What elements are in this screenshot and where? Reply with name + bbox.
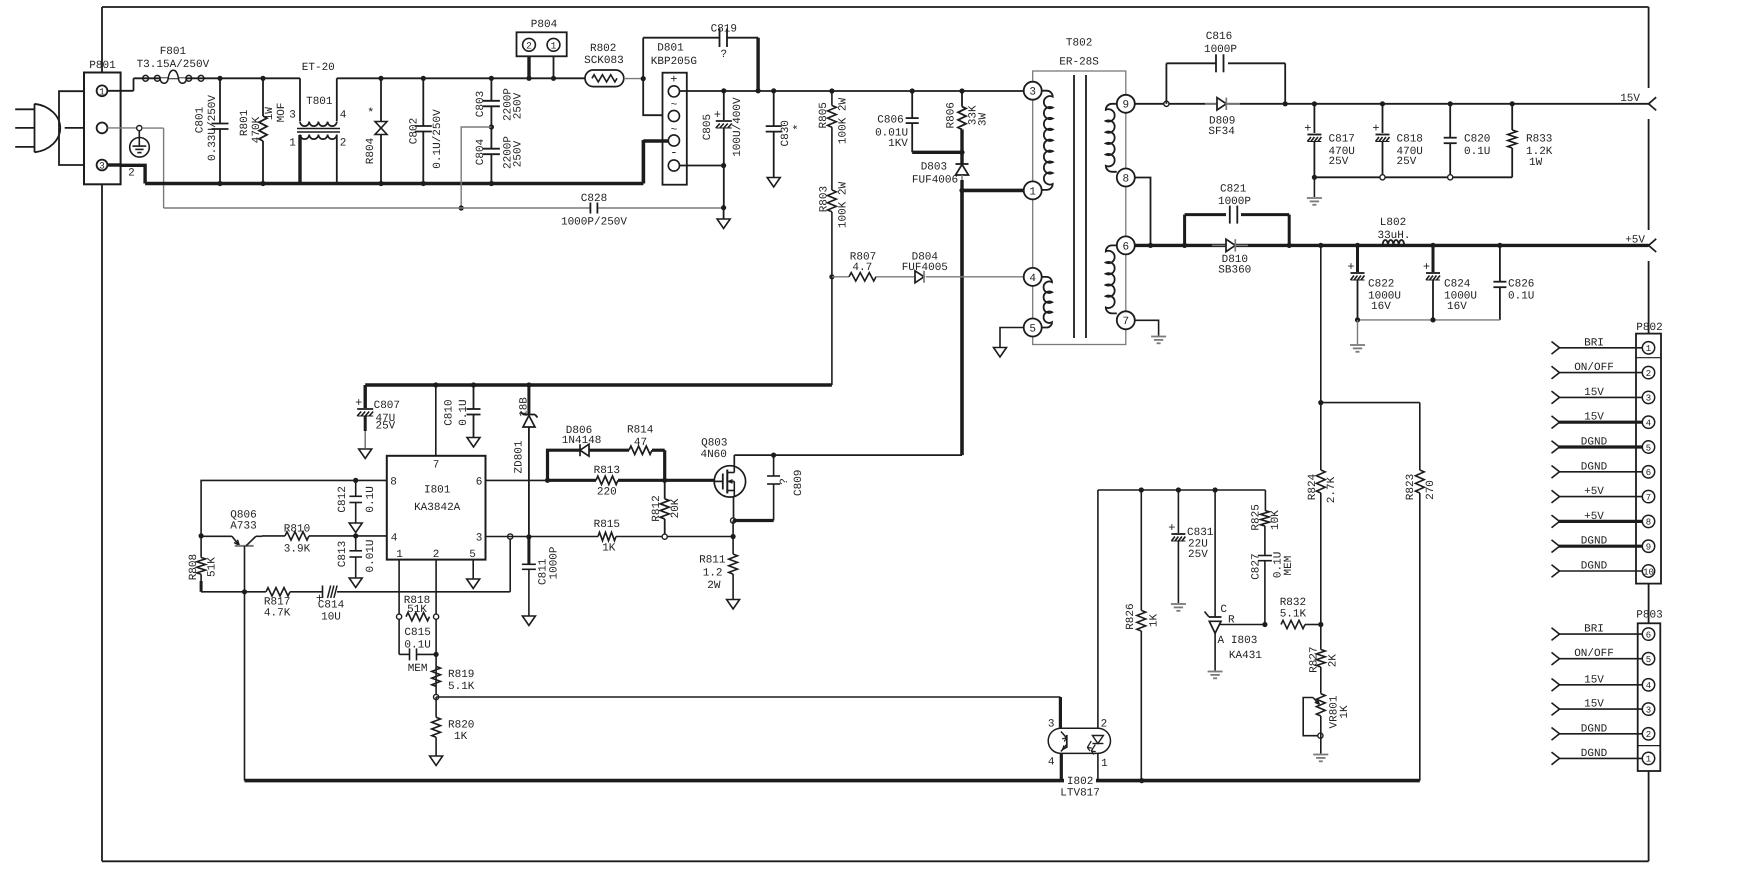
- resistor R812: [664, 480, 666, 499]
- P803 pin 4 wire 15V: [1559, 684, 1642, 686]
- svg-text:2: 2: [1646, 369, 1651, 379]
- T801 winding 1-2: [300, 135, 337, 140]
- svg-text:1N4148: 1N4148: [562, 435, 602, 447]
- wire to bridge ~1: [643, 79, 668, 116]
- capacitor C826: [1497, 243, 1502, 248]
- T802 pin5 wire to ground: [1000, 328, 1024, 348]
- I802 pin4 leg (thick): [1060, 753, 1063, 780]
- AC plug: [35, 104, 61, 153]
- P802 pin 10 wire DGND: [1559, 570, 1642, 572]
- svg-text:ON/OFF: ON/OFF: [1574, 362, 1614, 374]
- T802 pin 7: [1117, 311, 1135, 329]
- R824-R823 tie row: [1321, 402, 1420, 404]
- svg-text:C831: C831: [1187, 527, 1214, 539]
- capacitor C811: [527, 537, 530, 564]
- I802 phototransistor: [1066, 735, 1068, 748]
- resistor R827: [1320, 625, 1322, 650]
- svg-text:ZD801: ZD801: [513, 440, 525, 473]
- svg-text:6: 6: [476, 476, 483, 488]
- VCC rail (thick): [365, 383, 832, 386]
- svg-text:C805: C805: [702, 114, 714, 140]
- svg-text:BRI: BRI: [1584, 624, 1604, 636]
- capacitor C804: [489, 124, 494, 129]
- secondary reference rail: [1098, 489, 1266, 491]
- svg-text:R813: R813: [594, 465, 620, 477]
- svg-text:C814: C814: [318, 600, 345, 612]
- svg-text:MEM: MEM: [408, 663, 428, 675]
- capacitor C814: [322, 586, 324, 599]
- I802 pin2 riser: [1097, 490, 1099, 728]
- svg-text:16V: 16V: [1371, 301, 1391, 313]
- svg-text:C819: C819: [711, 24, 737, 36]
- svg-text:1000P: 1000P: [1218, 196, 1251, 208]
- PWM IC I801 KA3842A: [387, 456, 486, 560]
- svg-text:4: 4: [340, 110, 347, 122]
- gate drive top row D806 R814: [548, 450, 581, 480]
- svg-text:250V: 250V: [512, 92, 524, 119]
- svg-text:1K: 1K: [602, 543, 616, 555]
- capacitor C810: [471, 382, 476, 387]
- capacitor C824: [1430, 243, 1435, 248]
- wire bridge minus: [680, 165, 724, 167]
- rail P804 to R802: [529, 77, 585, 79]
- snubber capacitor C816 loop: [1165, 63, 1167, 104]
- capacitor C802: [422, 78, 424, 126]
- resistor R826: [1140, 490, 1142, 610]
- svg-text:R805: R805: [818, 102, 830, 128]
- svg-text:DGND: DGND: [1581, 437, 1608, 449]
- svg-text:0.1U: 0.1U: [458, 399, 470, 425]
- resistor R825: [1264, 490, 1266, 511]
- svg-text:P803: P803: [1636, 610, 1662, 622]
- svg-text:8: 8: [1646, 518, 1651, 528]
- svg-text:R825: R825: [1250, 504, 1262, 530]
- ground under VR801: [1313, 754, 1328, 756]
- svg-text:MOF: MOF: [276, 103, 288, 123]
- svg-text:C806: C806: [877, 115, 903, 127]
- capacitor C817: [1312, 101, 1317, 106]
- feedback row to optocoupler: [436, 696, 1060, 698]
- fuse F801: [134, 77, 301, 79]
- riser to pin3 row: [509, 537, 511, 592]
- svg-text:SF34: SF34: [1208, 126, 1235, 138]
- svg-text:DGND: DGND: [1581, 461, 1608, 473]
- T802 core: [1073, 75, 1075, 338]
- svg-text:SCK083: SCK083: [584, 55, 624, 67]
- T801 winding 3-4: [299, 78, 301, 121]
- svg-text:KBP205G: KBP205G: [651, 56, 697, 68]
- source junction: [733, 497, 735, 521]
- P802 pin 5 wire DGND: [1559, 445, 1642, 448]
- svg-text:5: 5: [1029, 323, 1036, 335]
- varistor R804: [380, 78, 382, 121]
- wire P801 mid to earth line: [107, 127, 136, 129]
- svg-text:5: 5: [469, 549, 476, 561]
- svg-text:C821: C821: [1220, 184, 1247, 196]
- source tie (thick): [733, 519, 774, 522]
- T802 pin3 wire: [962, 90, 1024, 92]
- svg-text:R819: R819: [448, 669, 474, 681]
- svg-text:R808: R808: [188, 554, 200, 580]
- svg-text:1: 1: [289, 138, 296, 150]
- svg-text:220: 220: [597, 486, 617, 498]
- T801 pin2 leg: [336, 135, 338, 184]
- svg-text:R812: R812: [651, 495, 663, 521]
- svg-text:1: 1: [1101, 758, 1108, 770]
- ground under C810: [467, 438, 480, 448]
- capacitor C803: [489, 76, 494, 81]
- svg-text:15V: 15V: [1620, 93, 1640, 105]
- svg-text:100U/400V: 100U/400V: [732, 97, 744, 157]
- T802 pin 5: [1024, 319, 1042, 337]
- svg-text:C830: C830: [780, 120, 792, 146]
- svg-text:C: C: [1220, 604, 1227, 616]
- P801 pin mid: [97, 123, 108, 134]
- svg-text:5.1K: 5.1K: [448, 681, 475, 693]
- resistor R824: [1320, 245, 1322, 402]
- svg-text:10: 10: [1643, 567, 1654, 577]
- svg-text:7: 7: [433, 459, 440, 471]
- svg-text:1: 1: [1646, 344, 1651, 354]
- capacitor C827: [1258, 555, 1272, 557]
- svg-text:3: 3: [1646, 394, 1651, 404]
- svg-text:15V: 15V: [1584, 412, 1604, 424]
- svg-text:R833: R833: [1526, 134, 1552, 146]
- svg-text:+: +: [714, 108, 721, 122]
- aux diode D804: [876, 276, 915, 278]
- svg-text:8: 8: [390, 476, 397, 488]
- resistor R808: [200, 536, 202, 558]
- P803 pin 5 wire ON/OFF: [1559, 658, 1642, 660]
- svg-text:T801: T801: [306, 96, 333, 108]
- svg-text:P802: P802: [1636, 322, 1662, 334]
- svg-text:R811: R811: [699, 554, 726, 566]
- svg-text:15V: 15V: [1584, 699, 1604, 711]
- svg-text:C813: C813: [337, 541, 349, 567]
- svg-text:2K: 2K: [1327, 654, 1339, 668]
- svg-text:Q803: Q803: [701, 437, 727, 449]
- svg-text:C812: C812: [337, 486, 349, 512]
- svg-text:ET-20: ET-20: [302, 62, 335, 74]
- plug prong bottom: [15, 146, 34, 148]
- ground under R811: [727, 600, 740, 610]
- svg-text:1W: 1W: [1529, 157, 1543, 169]
- svg-text:2: 2: [340, 138, 347, 150]
- resistor R810: [262, 535, 285, 537]
- rectifier diode D809: [1205, 103, 1217, 105]
- snubber diode D803: [960, 152, 963, 163]
- svg-text:3: 3: [1029, 87, 1036, 99]
- wire D804 to T802 pin4: [926, 276, 1024, 278]
- ground under C813: [349, 578, 362, 588]
- svg-text:C810: C810: [444, 399, 456, 425]
- C819 right leg (thick): [756, 38, 759, 91]
- svg-text:*: *: [792, 123, 806, 130]
- svg-text:1KV: 1KV: [888, 138, 908, 150]
- capacitor C809: [773, 455, 775, 476]
- svg-text:FUF4006: FUF4006: [912, 175, 958, 187]
- I802 pin1 leg: [1097, 753, 1099, 780]
- svg-text:3.9K: 3.9K: [284, 543, 311, 555]
- svg-text:5: 5: [1646, 443, 1651, 453]
- svg-text:R823: R823: [1405, 474, 1417, 500]
- resistor R815: [598, 532, 616, 540]
- svg-text:2W: 2W: [707, 580, 721, 592]
- svg-text:5.1K: 5.1K: [1280, 609, 1307, 621]
- connector P801: [84, 73, 121, 185]
- svg-text:18B: 18B: [519, 397, 531, 417]
- svg-text:+: +: [1347, 260, 1354, 274]
- resistor R811: [732, 537, 734, 555]
- resistor R814: [629, 446, 652, 454]
- T801 core: [297, 128, 340, 130]
- svg-text:3W: 3W: [977, 113, 989, 127]
- svg-text:15V: 15V: [1584, 674, 1604, 686]
- capacitor C807: [364, 385, 367, 408]
- bulk capacitor C805: [723, 91, 725, 120]
- svg-text:R832: R832: [1280, 597, 1306, 609]
- T802 pin 1: [1024, 181, 1042, 199]
- resistor R833: [1510, 101, 1515, 106]
- snubber capacitor C806: [910, 88, 915, 93]
- svg-text:3: 3: [1646, 705, 1651, 715]
- svg-text:LTV817: LTV817: [1060, 787, 1100, 799]
- ground under pin5: [467, 579, 480, 589]
- drain vertical (thick): [960, 190, 964, 455]
- T802 pin1 wire (thick): [962, 189, 1024, 193]
- T802 pin 3: [1024, 82, 1042, 100]
- wire plug to P801 pin1: [59, 91, 84, 128]
- svg-text:?: ?: [720, 49, 727, 61]
- svg-text:I803: I803: [1231, 635, 1257, 647]
- DC+ rail: [680, 90, 963, 92]
- svg-text:0.01U: 0.01U: [365, 539, 377, 572]
- P801 pin 1: [97, 85, 108, 96]
- svg-text:R810: R810: [284, 523, 310, 535]
- svg-text:+: +: [1423, 260, 1430, 274]
- P802 pin 6 wire DGND: [1559, 471, 1642, 473]
- capacitor C815: [399, 653, 409, 655]
- svg-text:15V: 15V: [1584, 387, 1604, 399]
- diode D806: [580, 444, 589, 456]
- svg-text:KA431: KA431: [1229, 650, 1262, 662]
- svg-text:DGND: DGND: [1581, 748, 1608, 760]
- capacitor C819 loop: [642, 38, 644, 79]
- pin3 row: [486, 536, 599, 538]
- svg-text:4N60: 4N60: [700, 449, 726, 461]
- svg-text:1000P: 1000P: [549, 546, 561, 579]
- earth line: [164, 207, 590, 209]
- P802 pin 3 wire 15V: [1559, 396, 1642, 398]
- svg-text:-: -: [670, 145, 678, 160]
- svg-text:1: 1: [1646, 755, 1651, 765]
- capacitor C801: [219, 78, 221, 123]
- resistor R820: [435, 697, 437, 717]
- svg-text:DGND: DGND: [1581, 536, 1608, 548]
- svg-text:1.2: 1.2: [703, 567, 723, 579]
- svg-text:~: ~: [671, 100, 678, 112]
- wire R802 to bridge: [624, 78, 641, 80]
- P802 pin 4 wire 15V: [1559, 421, 1642, 424]
- svg-text:A733: A733: [230, 521, 256, 533]
- junction ZD801/C811: [526, 534, 531, 539]
- P804 pin2 stub (thick): [527, 56, 530, 78]
- ground under C817: [1313, 177, 1315, 197]
- svg-text:+: +: [1304, 122, 1311, 136]
- resistor R823: [1419, 403, 1421, 470]
- junction R812 bottom: [662, 534, 667, 539]
- svg-text:0.33U/250V: 0.33U/250V: [207, 95, 219, 161]
- I802 pin3 riser (thick): [1059, 697, 1062, 728]
- ground below C830: [767, 178, 780, 188]
- resistor R818: [397, 614, 402, 619]
- P803 pin 3 wire 15V: [1559, 708, 1642, 710]
- svg-text:10K: 10K: [1270, 510, 1282, 530]
- svg-text:3: 3: [476, 532, 483, 544]
- capacitor C818: [1380, 101, 1385, 106]
- T802 secondary winding 6-7: [1106, 245, 1117, 313]
- +5V filter ground join: [1358, 319, 1500, 321]
- P803 pin 2 wire DGND: [1559, 733, 1642, 735]
- svg-text:1K: 1K: [1339, 705, 1351, 719]
- svg-text:0.1U: 0.1U: [365, 486, 377, 512]
- svg-text:2: 2: [433, 549, 440, 561]
- P802 pin 9 wire DGND: [1559, 545, 1642, 548]
- T802 primary winding 3-1: [1042, 91, 1053, 190]
- ground under C807: [359, 449, 372, 459]
- T802 primary winding 4-5: [1042, 277, 1052, 328]
- svg-text:25V: 25V: [375, 421, 395, 433]
- top rail right of T801: [337, 77, 529, 79]
- svg-text:+: +: [355, 396, 362, 410]
- svg-text:4: 4: [1048, 756, 1055, 768]
- svg-text:7: 7: [1122, 316, 1129, 328]
- T802 pin 6: [1117, 236, 1135, 254]
- junction R803/R807: [829, 274, 834, 279]
- svg-text:1K: 1K: [1149, 614, 1161, 628]
- snubber join (thick): [912, 151, 962, 154]
- snubber resistor R806: [959, 88, 964, 93]
- pin1/pin2 bottom network: [398, 560, 400, 655]
- svg-text:C817: C817: [1329, 134, 1355, 146]
- svg-text:51K: 51K: [407, 604, 427, 616]
- svg-text:2: 2: [1646, 730, 1651, 740]
- P803 pin 1 wire DGND: [1559, 757, 1642, 759]
- svg-text:T3.15A/250V: T3.15A/250V: [137, 59, 210, 71]
- ground under C812: [349, 523, 362, 533]
- resistor R801: [262, 78, 264, 116]
- svg-text:~: ~: [671, 124, 678, 136]
- svg-text:A: A: [1218, 635, 1225, 647]
- resistor R817: [266, 588, 290, 596]
- svg-text:+5V: +5V: [1584, 486, 1604, 498]
- R817/C814 row: [201, 591, 266, 593]
- svg-text:R826: R826: [1125, 603, 1137, 629]
- svg-text:3: 3: [99, 161, 105, 172]
- svg-text:P801: P801: [89, 60, 116, 72]
- svg-text:6: 6: [1122, 241, 1129, 253]
- P802 pin 1 wire BRI: [1559, 347, 1642, 349]
- wire P801 pin1 to fuse: [107, 90, 133, 92]
- pin4 row: [356, 535, 387, 537]
- svg-text:C807: C807: [374, 400, 400, 412]
- svg-text:C803: C803: [475, 91, 487, 117]
- resistor R813: [548, 479, 597, 482]
- svg-text:4.7: 4.7: [852, 262, 872, 274]
- 15V filter ground bus: [1314, 176, 1512, 178]
- svg-text:0.1U/250V: 0.1U/250V: [432, 109, 444, 169]
- T801 pin1 leg (thick): [298, 135, 301, 184]
- svg-text:25V: 25V: [1329, 156, 1349, 168]
- junction C816 left: [1164, 101, 1169, 106]
- T802 secondary winding 9-8: [1106, 104, 1117, 172]
- reference row: [1219, 624, 1265, 626]
- svg-text:+: +: [670, 72, 677, 86]
- Q806 collector drop: [244, 546, 246, 592]
- svg-text:2: 2: [1101, 718, 1108, 730]
- svg-text:2.7K: 2.7K: [1326, 476, 1338, 503]
- svg-text:0.1U: 0.1U: [404, 640, 430, 652]
- R814 down leg (thick): [663, 450, 666, 480]
- svg-text:MEM: MEM: [1283, 556, 1295, 576]
- svg-text:DGND: DGND: [1581, 561, 1608, 573]
- thermistor R802: [585, 70, 624, 87]
- svg-text:4: 4: [1646, 681, 1651, 691]
- svg-text:C801: C801: [194, 106, 206, 133]
- svg-text:5: 5: [1646, 655, 1651, 665]
- svg-text:250V: 250V: [512, 140, 524, 167]
- plug prong top: [15, 108, 34, 110]
- svg-text:R827: R827: [1309, 646, 1321, 672]
- capacitor C813: [353, 533, 358, 538]
- svg-text:C818: C818: [1397, 134, 1423, 146]
- svg-text:C816: C816: [1206, 31, 1232, 43]
- svg-text:C820: C820: [1464, 134, 1490, 146]
- svg-text:47: 47: [634, 437, 647, 449]
- svg-text:I802: I802: [1067, 776, 1093, 788]
- T801 pin4 riser: [336, 78, 338, 121]
- svg-text:2: 2: [128, 168, 135, 180]
- capacitor C830: [773, 91, 775, 126]
- svg-text:16V: 16V: [1447, 301, 1467, 313]
- capacitor C820: [1448, 101, 1453, 106]
- svg-text:ER-28S: ER-28S: [1059, 57, 1099, 69]
- svg-text:C828: C828: [581, 193, 607, 205]
- svg-text:*: *: [367, 106, 374, 120]
- 15V rail: [1135, 103, 1649, 105]
- junction bridge AC input: [641, 76, 646, 81]
- pin6 row: [486, 479, 548, 481]
- aux resistor R807: [832, 276, 849, 278]
- svg-text:2: 2: [526, 40, 532, 51]
- wire plug to P801 mid: [65, 127, 84, 129]
- svg-text:R802: R802: [590, 43, 616, 55]
- snubber capacitor C821 loop: [1183, 215, 1186, 246]
- svg-text:25V: 25V: [1188, 549, 1208, 561]
- svg-text:1K: 1K: [454, 731, 468, 743]
- svg-text:SB360: SB360: [1218, 264, 1251, 276]
- svg-text:ON/OFF: ON/OFF: [1574, 648, 1614, 660]
- T802 pin 9: [1117, 95, 1135, 113]
- ground under C811: [522, 616, 535, 626]
- svg-text:6: 6: [1646, 630, 1651, 640]
- trimmer VR801: [1316, 694, 1325, 716]
- source to sense row: [732, 521, 734, 537]
- Q806 collector long drop: [244, 592, 246, 781]
- resistor R819: [432, 666, 441, 686]
- P802 pin 2 wire ON/OFF: [1559, 372, 1642, 374]
- P804 pin1 stub: [553, 56, 555, 78]
